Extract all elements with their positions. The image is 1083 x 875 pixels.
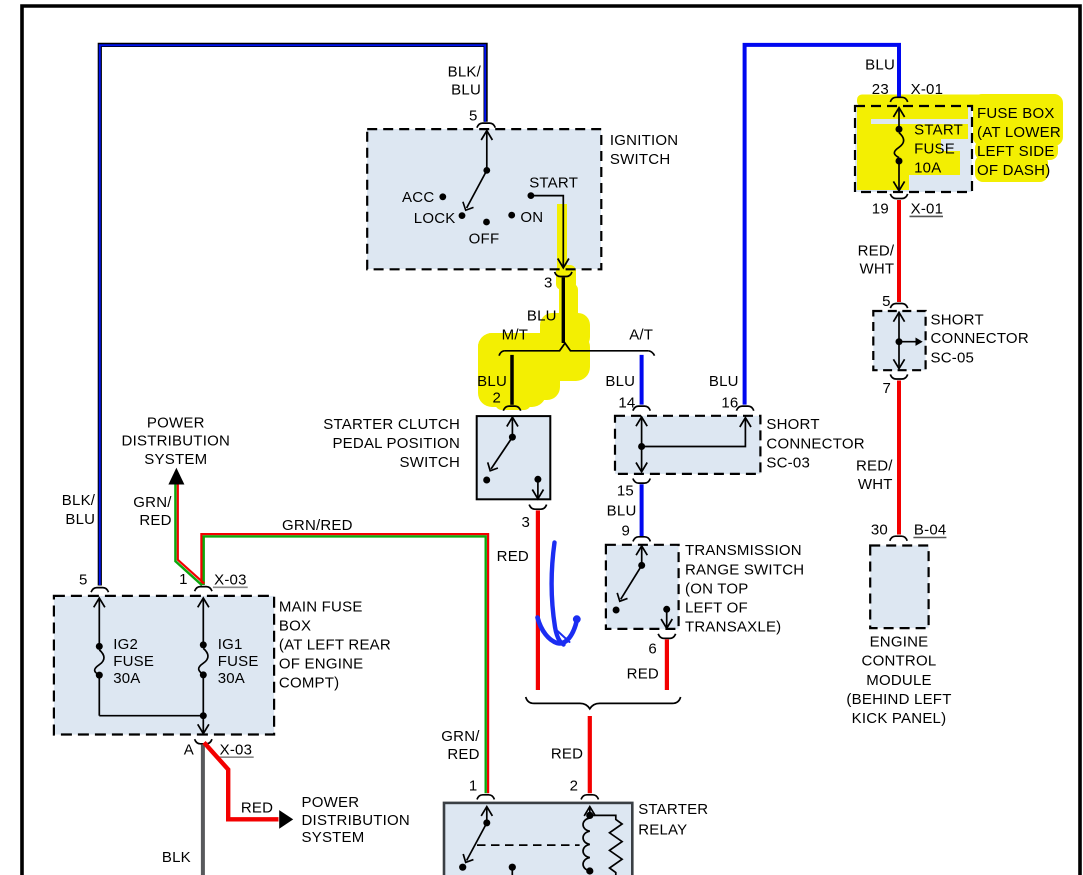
connector cup at clutch pin 3 (529, 505, 546, 510)
power distribution system arrow (right) (279, 810, 293, 829)
wire BLU from ignition pin 3 to M/T - A/T split (562, 277, 565, 343)
SC-03 junction dot (638, 443, 645, 450)
ignition switch box (367, 129, 601, 269)
highlighter mark over fuse box X-01 and its caption (857, 94, 1063, 190)
svg-text:RANGE SWITCH: RANGE SWITCH (685, 561, 804, 578)
clutch switch output dot and arrow to pin 3 (534, 476, 541, 483)
svg-text:3: 3 (544, 275, 553, 292)
svg-text:14: 14 (618, 395, 635, 412)
svg-text:RED: RED (447, 746, 479, 763)
svg-text:7: 7 (883, 380, 892, 397)
trans switch entry arrow pin 9 (636, 546, 647, 566)
svg-text:16: 16 (721, 395, 738, 412)
svg-text:WHT: WHT (858, 476, 893, 493)
svg-text:19: 19 (872, 201, 889, 218)
svg-text:X-01: X-01 (911, 81, 944, 98)
svg-text:FUSE: FUSE (914, 141, 955, 158)
wire BLU (A/T branch) to SC-03 pin 14 (640, 355, 644, 405)
svg-text:2: 2 (493, 389, 502, 406)
svg-text:5: 5 (469, 108, 478, 125)
svg-text:GRN/: GRN/ (441, 728, 480, 745)
svg-text:10A: 10A (914, 160, 941, 177)
svg-text:SWITCH: SWITCH (400, 454, 460, 471)
engine control module box (870, 546, 928, 629)
svg-text:MODULE: MODULE (866, 672, 932, 689)
svg-text:BLU: BLU (477, 373, 507, 390)
fuse IG2 30A (94, 598, 105, 716)
position dot ON (508, 212, 515, 219)
svg-text:LEFT SIDE: LEFT SIDE (977, 143, 1055, 160)
transmission range switch box (606, 545, 679, 629)
svg-text:CONNECTOR: CONNECTOR (766, 435, 864, 452)
svg-text:B-04: B-04 (914, 522, 947, 539)
fuse box X-01 fill (855, 106, 972, 192)
svg-text:PEDAL POSITION: PEDAL POSITION (332, 435, 460, 452)
ignition switch box fill (367, 129, 601, 269)
short connector SC-05 box (873, 311, 925, 370)
svg-text:1: 1 (179, 571, 188, 588)
svg-text:RED: RED (497, 548, 529, 565)
svg-text:LOCK: LOCK (414, 210, 456, 227)
M/T / A/T option split (499, 343, 654, 356)
wire RED/WHT from SC-05 pin 7 to ECM pin 30 (897, 381, 901, 535)
svg-text:CONNECTOR: CONNECTOR (931, 330, 1029, 347)
wire RED from pin A to power distribution arrow (204, 743, 279, 820)
connector hat at fuse box pin 23 (890, 97, 907, 102)
connector cup at ignition pin 3 (555, 272, 572, 277)
SC-05 junction dot (896, 338, 903, 345)
svg-text:BLU: BLU (527, 307, 557, 324)
svg-text:6: 6 (648, 641, 657, 658)
connector hat at SC-05 pin 5 (890, 304, 907, 309)
svg-text:3: 3 (521, 514, 530, 531)
connector hat at trans pin 9 (633, 537, 650, 542)
svg-text:KICK PANEL): KICK PANEL) (852, 710, 947, 727)
svg-text:SWITCH: SWITCH (610, 151, 670, 168)
relay contact dot (left) (459, 864, 466, 871)
svg-text:BLU: BLU (709, 373, 739, 390)
svg-text:30: 30 (871, 522, 888, 539)
svg-text:POWER: POWER (302, 794, 360, 811)
position dot ACC (439, 193, 446, 200)
wire RED/WHT from fuse box pin 19 to SC-05 pin 5 (897, 200, 901, 302)
ignition switch rotor arm (463, 170, 487, 210)
svg-text:30A: 30A (113, 670, 140, 687)
fuse box X-01 (dashed) (855, 106, 972, 192)
svg-text:30A: 30A (218, 670, 245, 687)
svg-text:SHORT: SHORT (766, 416, 819, 433)
relay actuation dashed link (477, 844, 580, 846)
svg-text:CONTROL: CONTROL (862, 653, 937, 670)
relay coil bottom dot (586, 867, 593, 874)
svg-text:5: 5 (79, 571, 88, 588)
svg-text:START: START (529, 174, 578, 191)
svg-text:RED: RED (139, 512, 171, 529)
relay resistor branch (590, 815, 622, 875)
short connector SC-03 box (615, 416, 760, 474)
clutch switch entry arrow pin 2 (507, 417, 518, 437)
fuse IG1 30A (198, 598, 209, 716)
connector hat at relay pin 1 (477, 795, 494, 800)
wire GRN/RED from main fuse box pin 1 to starter relay pin 1 (201, 534, 488, 793)
svg-text:RED: RED (551, 746, 583, 763)
START fuse 10A (893, 108, 904, 191)
svg-text:BLU: BLU (607, 503, 637, 520)
svg-text:23: 23 (872, 81, 889, 98)
position dot OFF (483, 219, 490, 226)
svg-text:ACC: ACC (402, 189, 434, 206)
UNDERLAYS (367, 106, 972, 269)
starter relay box (444, 803, 632, 875)
svg-text:STARTER: STARTER (638, 801, 708, 818)
wire GRN/RED branch to power distribution arrow (175, 484, 204, 585)
svg-text:IGNITION: IGNITION (610, 132, 678, 149)
exit arrow to pin A (198, 716, 209, 734)
relay coil top dot (586, 812, 593, 819)
wire BLU from top run to SC-03 pin 16 (745, 45, 899, 405)
svg-text:OF ENGINE: OF ENGINE (279, 656, 364, 673)
svg-text:M/T: M/T (502, 327, 529, 344)
trans switch pivot dot (638, 562, 645, 569)
svg-text:FUSE: FUSE (218, 653, 259, 670)
svg-text:X-01: X-01 (911, 201, 944, 218)
svg-text:(BEHIND LEFT: (BEHIND LEFT (846, 691, 951, 708)
svg-text:STARTER CLUTCH: STARTER CLUTCH (323, 416, 460, 433)
svg-text:SYSTEM: SYSTEM (144, 451, 207, 468)
svg-text:BLU: BLU (865, 56, 895, 73)
connector hat at ECM pin 30 (890, 536, 907, 541)
connector cup at fuse box pin 19 (890, 194, 907, 199)
svg-text:BLK/: BLK/ (448, 63, 482, 80)
connector cup at main fuse box pin A (195, 739, 212, 744)
svg-text:ENGINE: ENGINE (870, 634, 929, 651)
SC-05 arrow to right (916, 338, 923, 346)
svg-text:1: 1 (469, 778, 478, 795)
svg-text:ON: ON (520, 209, 543, 226)
svg-text:9: 9 (621, 523, 630, 540)
svg-text:X-03: X-03 (214, 572, 247, 589)
svg-text:DISTRIBUTION: DISTRIBUTION (302, 812, 410, 829)
svg-text:OF DASH): OF DASH) (977, 162, 1050, 179)
svg-text:BLK/: BLK/ (62, 492, 96, 509)
svg-text:START: START (914, 122, 963, 139)
wire RED from trans pin 6 to bundle brace (665, 639, 669, 690)
svg-text:MAIN FUSE: MAIN FUSE (279, 599, 363, 616)
internal bus wire joining fuse bottoms (99, 715, 203, 717)
svg-text:(AT LEFT REAR: (AT LEFT REAR (279, 637, 391, 654)
SC-05 internal link (893, 312, 917, 368)
svg-text:SHORT: SHORT (931, 311, 984, 328)
svg-text:(ON TOP: (ON TOP (685, 580, 749, 597)
svg-text:FUSE: FUSE (113, 653, 154, 670)
START contact wire to pin 3 (531, 196, 569, 268)
wire RED from brace to starter relay pin 2 (588, 716, 592, 793)
svg-text:SC-03: SC-03 (766, 454, 810, 471)
connector hat at main fuse box pin 1 (195, 587, 212, 592)
ignition pivot dot (483, 167, 490, 174)
wire BLK from pin A downward (201, 745, 205, 875)
trans switch contact dot (left) (613, 607, 620, 614)
wire RED from clutch pin 3 to bundle brace (536, 510, 540, 690)
hand-drawn pen scribble (blue) (538, 543, 577, 645)
svg-text:A: A (184, 741, 194, 758)
relay coil (583, 818, 590, 871)
svg-text:OFF: OFF (469, 231, 500, 248)
svg-text:TRANSMISSION: TRANSMISSION (685, 542, 802, 559)
svg-text:BLK: BLK (162, 849, 191, 866)
clutch switch pivot dot (509, 434, 516, 441)
svg-text:5: 5 (882, 293, 891, 310)
relay switch arm (463, 823, 487, 863)
clutch switch arm (488, 437, 513, 471)
svg-text:BLU: BLU (65, 511, 95, 528)
svg-text:BOX: BOX (279, 618, 311, 635)
highlighter mark over START wire and M/T branch (478, 204, 590, 410)
position dot START (528, 192, 535, 199)
svg-text:POWER: POWER (147, 414, 205, 431)
wire BLU from SC-03 pin 15 to trans range switch pin 9 (640, 484, 644, 536)
svg-text:RED: RED (241, 800, 273, 817)
main fuse box (54, 596, 274, 735)
connector hat at clutch switch pin 2 (503, 406, 520, 411)
wire BLU (M/T branch) to clutch switch pin 2 (510, 355, 514, 405)
svg-text:BLU: BLU (605, 373, 635, 390)
bundle brace joining the two RED wires (526, 697, 681, 709)
svg-text:DISTRIBUTION: DISTRIBUTION (122, 433, 230, 450)
svg-text:A/T: A/T (629, 327, 653, 344)
svg-text:RED/: RED/ (858, 243, 895, 260)
relay entry arrow pin 2 (584, 807, 595, 816)
svg-text:RED: RED (627, 666, 659, 683)
svg-text:BLU: BLU (451, 81, 481, 98)
svg-text:SYSTEM: SYSTEM (302, 829, 365, 846)
clutch switch contact dot (left) (483, 477, 490, 484)
position dot LOCK (459, 212, 466, 219)
svg-text:X-03: X-03 (220, 741, 253, 758)
svg-text:GRN/: GRN/ (133, 494, 172, 511)
relay entry arrow pin 1 (481, 807, 492, 823)
SC-03 connector hats pins 14 and 16 (633, 406, 650, 411)
svg-text:2: 2 (570, 778, 579, 795)
svg-text:WHT: WHT (859, 261, 894, 278)
svg-text:RED/: RED/ (856, 458, 893, 475)
connector cup at SC-03 pin 15 (633, 479, 650, 484)
starter clutch pedal position switch box (477, 416, 551, 499)
svg-text:COMPT): COMPT) (279, 675, 339, 692)
SC-03 internal link (636, 417, 751, 472)
svg-text:GRN/RED: GRN/RED (282, 517, 353, 534)
connector cup at trans pin 6 (658, 634, 675, 639)
svg-text:RELAY: RELAY (638, 821, 687, 838)
svg-text:15: 15 (617, 482, 634, 499)
junction dot at pin A feed (200, 712, 207, 719)
trans switch arm (617, 565, 642, 601)
power distribution system arrow (up) (168, 468, 184, 485)
ignition switch entry arrow pin 5 (481, 131, 492, 171)
svg-text:FUSE BOX: FUSE BOX (977, 105, 1055, 122)
svg-text:IG2: IG2 (113, 636, 138, 653)
connector cup at SC-05 pin 7 (890, 374, 907, 379)
svg-text:LEFT OF: LEFT OF (685, 600, 748, 617)
trans switch output dot and arrow to pin 6 (663, 606, 670, 613)
connector hat at main fuse box pin 5 (91, 588, 108, 593)
relay switch pivot dot (483, 819, 490, 826)
svg-text:(AT LOWER: (AT LOWER (977, 124, 1061, 141)
connector hat at ignition pin 5 (477, 123, 495, 128)
svg-text:TRANSAXLE): TRANSAXLE) (685, 619, 781, 636)
relay contact dot (center) with stub (509, 864, 516, 871)
svg-text:SC-05: SC-05 (931, 349, 975, 366)
connector hat at relay pin 2 (581, 795, 598, 800)
svg-text:IG1: IG1 (218, 636, 243, 653)
wire BLK/BLU from main fuse box pin 5 to ignition switch pin 5 (100, 45, 486, 586)
